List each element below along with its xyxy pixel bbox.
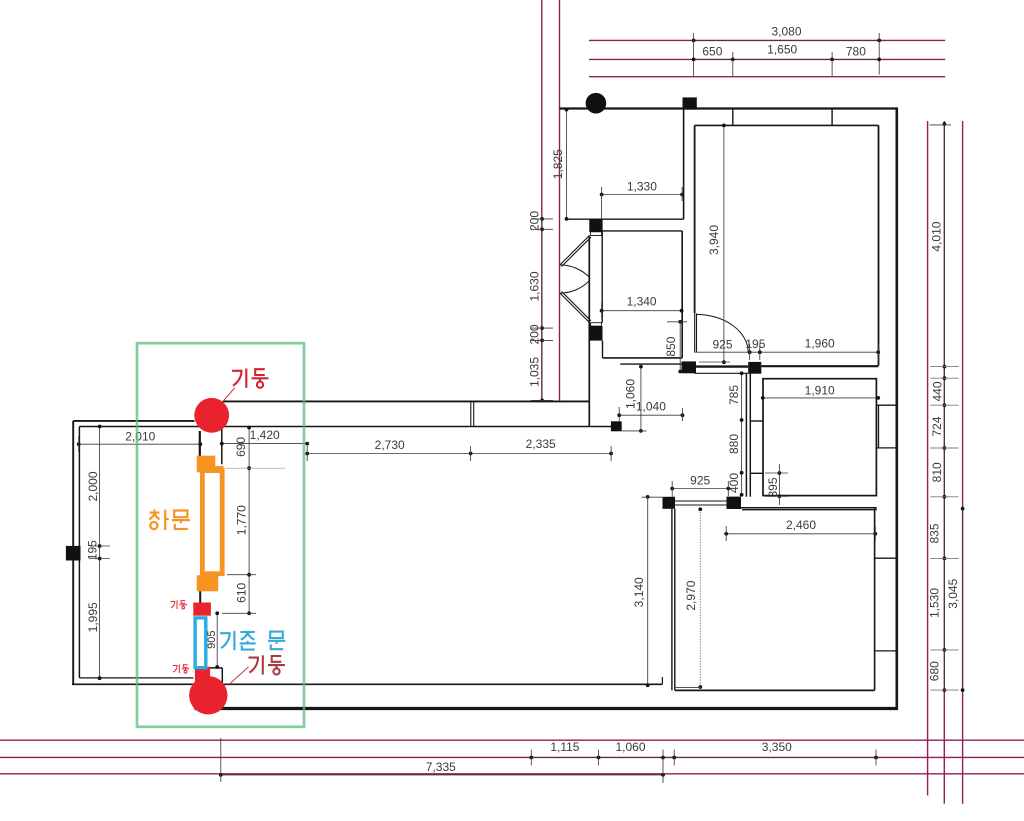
svg-text:3,080: 3,080 [771,25,801,39]
svg-text:2,460: 2,460 [786,518,816,532]
svg-text:1,910: 1,910 [805,384,835,398]
svg-text:3,350: 3,350 [762,740,792,754]
svg-text:395: 395 [766,477,780,497]
svg-text:610: 610 [234,582,248,602]
svg-text:195: 195 [85,540,99,560]
svg-text:1,530: 1,530 [927,588,941,618]
svg-text:200: 200 [528,211,542,231]
svg-text:3,140: 3,140 [632,577,646,607]
svg-text:1,340: 1,340 [627,294,657,308]
svg-text:1,825: 1,825 [551,149,565,179]
svg-text:2,335: 2,335 [526,437,556,451]
svg-text:1,650: 1,650 [767,43,797,57]
svg-text:785: 785 [727,385,741,405]
svg-text:4,010: 4,010 [930,221,944,251]
svg-text:1,035: 1,035 [528,357,542,387]
svg-text:2,010: 2,010 [125,429,155,443]
svg-text:440: 440 [930,381,944,401]
svg-text:1,960: 1,960 [805,336,835,350]
svg-text:680: 680 [927,661,941,681]
svg-text:2,730: 2,730 [375,438,405,452]
svg-text:1,040: 1,040 [636,400,666,414]
svg-text:1,420: 1,420 [250,428,280,442]
svg-text:690: 690 [234,437,248,457]
svg-text:1,060: 1,060 [624,379,638,409]
svg-text:2,000: 2,000 [86,471,100,501]
svg-text:925: 925 [712,338,732,352]
svg-text:1,115: 1,115 [550,740,579,754]
svg-text:1,995: 1,995 [86,602,100,632]
svg-text:1,770: 1,770 [234,505,248,535]
svg-text:3,940: 3,940 [707,225,721,255]
svg-text:880: 880 [727,434,741,454]
svg-text:7,335: 7,335 [426,760,456,774]
svg-text:3,045: 3,045 [946,578,960,608]
svg-text:925: 925 [690,474,710,488]
svg-text:1,630: 1,630 [528,271,542,301]
svg-text:1,330: 1,330 [627,180,657,194]
svg-text:2,970: 2,970 [684,580,698,610]
svg-text:724: 724 [930,416,944,436]
svg-text:905: 905 [206,631,218,649]
svg-text:780: 780 [846,44,866,58]
svg-text:810: 810 [930,462,944,482]
svg-text:200: 200 [528,324,542,344]
svg-text:835: 835 [927,523,941,543]
svg-text:650: 650 [702,44,722,58]
svg-text:850: 850 [664,336,678,356]
svg-text:195: 195 [745,337,765,351]
svg-text:1,060: 1,060 [615,740,645,754]
